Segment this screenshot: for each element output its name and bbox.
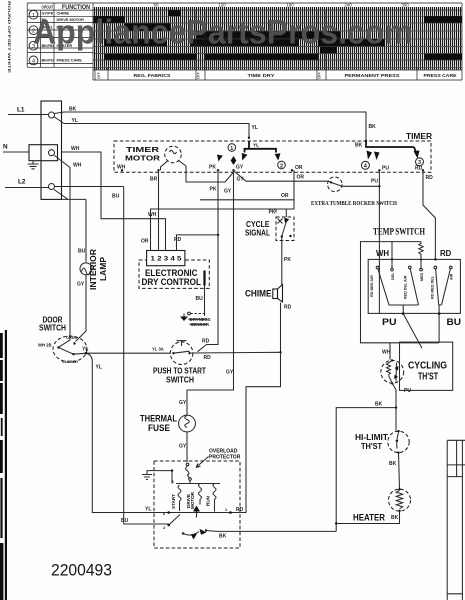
POWER — [3, 101, 381, 524]
cam bar solid segments — [93, 10, 462, 59]
timer terminal PK — [209, 165, 219, 172]
svg-text:GY: GY — [236, 165, 244, 171]
thermal fuse F1 — [140, 414, 195, 450]
svg-text:BK: BK — [369, 124, 377, 130]
wire RD timer contact3 to temp switch — [423, 170, 435, 259]
svg-text:RD: RD — [202, 339, 210, 345]
terminal block — [41, 101, 62, 199]
svg-text:TH'ST: TH'ST — [418, 372, 439, 383]
svg-text:120: 120 — [218, 2, 226, 7]
wire OR timer contact2 to dry control pin1 — [141, 170, 304, 250]
circuit wire codes and function names — [42, 11, 85, 63]
svg-text:2: 2 — [280, 163, 283, 169]
svg-text:180: 180 — [286, 2, 294, 7]
wire PU cycling thermostat out — [392, 383, 411, 430]
svg-text:AIR: AIR — [450, 273, 454, 280]
svg-text:GY: GY — [77, 282, 85, 288]
LEFTSTRIP — [0, 1, 12, 600]
svg-text:INTERIOR: INTERIOR — [89, 249, 98, 290]
door switch S3 — [38, 316, 87, 364]
node L2 — [18, 179, 26, 186]
svg-text:PU: PU — [371, 178, 378, 184]
timer label — [406, 131, 433, 141]
svg-text:GY: GY — [224, 189, 232, 195]
svg-text:TH'ST: TH'ST — [361, 441, 383, 451]
timer contact 3 — [414, 147, 425, 172]
svg-text:DRY CONTROL: DRY CONTROL — [142, 277, 202, 287]
hi-limit thermostat TH2 — [355, 430, 409, 454]
wire WH from neutral to timer motor and dry control — [62, 146, 166, 251]
svg-text:OFF: OFF — [318, 72, 322, 79]
svg-text:OFF: OFF — [197, 72, 201, 79]
wire RD chime to motor — [231, 303, 292, 514]
svg-text:GY: GY — [179, 444, 187, 450]
temp switch selector contacts — [370, 259, 454, 315]
wire BK centrifugal switch to heater circuit — [206, 531, 336, 540]
svg-text:OR: OR — [141, 239, 149, 245]
svg-text:ROUND OFFSET WHITE: ROUND OFFSET WHITE — [7, 1, 12, 74]
temp switch PU output label — [382, 317, 397, 328]
timer chart table frame — [27, 3, 462, 80]
temp switch S5 — [368, 228, 460, 314]
svg-text:N: N — [3, 144, 8, 151]
wire BK L2 to blue motor tap — [55, 186, 124, 188]
wire BK heater return — [335, 511, 400, 525]
extra tumble rocker switch — [311, 177, 397, 207]
svg-text:MED: MED — [420, 272, 424, 281]
cycle signal S2 — [245, 209, 294, 241]
svg-text:BK: BK — [219, 534, 227, 540]
wire GY timer to rocker switch and PU — [235, 172, 381, 188]
svg-text:RD MED DEL: RD MED DEL — [431, 275, 435, 299]
svg-text:RD: RD — [440, 249, 452, 258]
svg-text:CHIME: CHIME — [245, 289, 272, 299]
svg-text:SWITCH: SWITCH — [39, 324, 66, 333]
right edge cut-off table — [447, 440, 465, 600]
wire WH loop into temp switch — [361, 242, 440, 343]
svg-text:PK: PK — [210, 187, 217, 193]
svg-text:BU: BU — [447, 317, 462, 328]
svg-text:TIMER: TIMER — [406, 131, 433, 141]
svg-text:BK: BK — [389, 461, 397, 467]
heater R2 — [353, 488, 411, 523]
svg-text:WH: WH — [148, 212, 157, 218]
svg-text:YL 3A: YL 3A — [152, 347, 164, 352]
MIDDLE — [139, 170, 435, 513]
svg-text:BU: BU — [112, 194, 120, 200]
svg-text:YL: YL — [252, 125, 258, 131]
wire PU temp switch to cycling thermostat — [403, 314, 422, 349]
svg-text:BU: BU — [78, 249, 86, 255]
drive motor M1 — [154, 449, 241, 549]
svg-text:RD MED AIR: RD MED AIR — [370, 275, 374, 297]
svg-text:RD: RD — [426, 175, 434, 181]
interior lamp DS1 — [80, 249, 108, 290]
svg-text:RD: RD — [204, 355, 212, 361]
svg-text:OR: OR — [295, 165, 303, 171]
RIGHTSIDE — [335, 228, 465, 600]
svg-text:PU: PU — [404, 388, 411, 394]
cam bar rows (hatched) — [93, 11, 461, 70]
wire L2 lead — [5, 187, 49, 189]
wire WH to cycling thermostat — [382, 343, 391, 360]
wire RD tap to dry control pin4 — [174, 235, 218, 251]
svg-text:CYCLING: CYCLING — [408, 361, 447, 372]
svg-text:WH: WH — [73, 163, 82, 169]
svg-text:HEATER: HEATER — [353, 513, 385, 524]
svg-text:EXTRA TUMBLE ROCKER SWITCH: EXTRA TUMBLE ROCKER SWITCH — [311, 200, 397, 207]
wire PK cycle signal to chime — [282, 237, 292, 285]
svg-text:BK: BK — [69, 107, 77, 113]
svg-text:DEL: DEL — [391, 272, 395, 280]
timer terminal GY — [232, 165, 244, 172]
svg-text:YL: YL — [72, 118, 78, 124]
svg-text:TEMP SWITCH: TEMP SWITCH — [373, 228, 426, 238]
svg-text:BK: BK — [391, 515, 399, 521]
wire BR timer motor to dry control pin2 — [150, 170, 159, 250]
chart header text — [42, 4, 91, 10]
svg-text:BK/PU: BK/PU — [42, 58, 54, 63]
wire BU from L2 line to motor start — [112, 187, 169, 525]
temp switch BU output label — [447, 317, 462, 328]
svg-text:YL: YL — [145, 507, 151, 513]
motor centrifugal switch — [182, 529, 207, 540]
svg-text:PK: PK — [269, 210, 276, 216]
ground at neutral lug — [28, 161, 39, 169]
resistor R1 in temp switch — [419, 242, 423, 261]
wire WH from neutral to door switch — [55, 156, 82, 348]
timer motor TM — [125, 145, 235, 182]
svg-text:300: 300 — [401, 2, 409, 7]
dryness sensor — [180, 312, 211, 327]
temp switch RD terminal — [434, 249, 451, 261]
svg-text:CLOSED: CLOSED — [62, 360, 78, 364]
svg-text:60: 60 — [154, 2, 159, 7]
svg-text:RUN: RUN — [206, 495, 211, 506]
svg-text:WH: WH — [71, 146, 80, 152]
svg-text:PRESS CARE: PRESS CARE — [424, 73, 457, 78]
part number 2200493 — [51, 562, 112, 580]
wire PU timer contact4 to temp switch — [371, 170, 379, 313]
cycle label row — [95, 10, 417, 80]
svg-text:BK: BK — [375, 402, 383, 408]
svg-text:PK: PK — [209, 165, 216, 171]
svg-text:RED DEL AIR: RED DEL AIR — [404, 275, 408, 299]
svg-text:OFF: OFF — [97, 72, 101, 79]
circled circuit numbers 1-4 — [29, 10, 38, 65]
timer dashed enclosure — [114, 141, 431, 172]
svg-text:4: 4 — [32, 59, 35, 65]
svg-text:6: 6 — [163, 512, 165, 516]
svg-text:YL: YL — [253, 143, 259, 148]
svg-text:1: 1 — [230, 146, 233, 152]
node N — [3, 144, 8, 151]
terminal N — [49, 150, 55, 156]
svg-text:BU: BU — [196, 296, 204, 302]
svg-text:RD: RD — [174, 237, 182, 243]
CHART — [27, 2, 462, 80]
temp switch WH terminal — [376, 242, 393, 261]
timer terminal BR — [157, 169, 159, 171]
svg-text:CIRCUIT: CIRCUIT — [42, 4, 54, 9]
terminal L1 — [49, 112, 55, 118]
svg-text:WH: WH — [382, 350, 391, 356]
svg-text:THERMAL: THERMAL — [140, 414, 177, 424]
WATERMARK — [33, 14, 413, 52]
timer contact 2 — [275, 153, 303, 199]
wire YL door switch to push-to-start and motor — [74, 347, 171, 513]
wire from L2 terminal to lamp — [54, 190, 86, 200]
wire GY thermal fuse to motor — [186, 432, 188, 462]
wire BK bypass from motor — [336, 402, 397, 532]
push to start switch S4 — [152, 341, 207, 385]
wire BK hi-limit to heater — [389, 453, 400, 489]
wire PK/RD timer to push-to-start — [198, 170, 220, 351]
svg-text:2200493: 2200493 — [51, 562, 112, 580]
svg-text:WH 2B: WH 2B — [38, 343, 52, 348]
wire BU dry control to dryness sensor — [196, 286, 205, 314]
timer contact 4 — [361, 141, 414, 172]
svg-text:YL: YL — [96, 365, 102, 371]
BOTTOM — [51, 341, 336, 580]
svg-text:PK: PK — [284, 257, 291, 263]
svg-text:AppliancePartsPros.com: AppliancePartsPros.com — [33, 14, 413, 52]
timer contact 1 — [217, 141, 276, 166]
svg-text:REG. FABRICS: REG. FABRICS — [134, 73, 171, 78]
wire L1 lead — [8, 114, 49, 116]
node L1 — [17, 107, 25, 114]
svg-text:GY: GY — [237, 177, 245, 183]
svg-text:START: START — [171, 494, 176, 509]
wire BK from L1 to timer contact feed — [55, 107, 377, 149]
svg-text:GY: GY — [179, 400, 187, 406]
svg-text:1: 1 — [225, 508, 227, 512]
wire BU temp switch down — [438, 314, 440, 343]
wire N lead — [3, 151, 29, 153]
svg-text:TIME DRY: TIME DRY — [248, 73, 275, 78]
svg-text:OR: OR — [297, 175, 305, 181]
svg-text:SIGNAL: SIGNAL — [245, 229, 270, 238]
svg-text:FUSE: FUSE — [148, 423, 170, 433]
svg-text:WH: WH — [117, 165, 126, 171]
svg-text:LAMP: LAMP — [99, 257, 108, 281]
wire GY timer contact1 to thermal fuse — [179, 170, 244, 415]
terminal L2 — [49, 184, 55, 190]
electronic dry control U1 — [139, 251, 209, 289]
svg-text:PU: PU — [382, 317, 397, 328]
motor ground — [142, 471, 154, 480]
svg-text:YL: YL — [82, 347, 88, 353]
svg-text:WH: WH — [376, 249, 389, 258]
svg-text:PROTECTOR: PROTECTOR — [209, 455, 241, 461]
svg-text:5: 5 — [172, 480, 174, 484]
svg-text:MOTOR: MOTOR — [190, 491, 195, 509]
svg-text:SWITCH: SWITCH — [166, 375, 194, 385]
cycling thermostat label box — [400, 342, 453, 390]
chime SP1 — [245, 285, 283, 303]
svg-text:RD: RD — [284, 305, 292, 311]
svg-text:OPEN: OPEN — [66, 336, 77, 340]
svg-text:2: 2 — [163, 526, 165, 530]
svg-text:L2: L2 — [18, 179, 26, 186]
svg-text:BU: BU — [121, 518, 129, 524]
svg-text:PERMANENT PRESS: PERMANENT PRESS — [345, 73, 400, 78]
svg-text:BR: BR — [150, 177, 158, 183]
svg-text:RD: RD — [415, 166, 423, 172]
TIMERBOX — [114, 131, 433, 207]
svg-text:MOTOR: MOTOR — [125, 154, 161, 163]
svg-text:L1: L1 — [17, 107, 25, 114]
svg-text:OR: OR — [281, 193, 289, 199]
cut-off table edge at left border — [0, 330, 7, 600]
wire BU to interior lamp — [78, 199, 86, 261]
svg-text:GY: GY — [226, 370, 234, 376]
svg-text:240: 240 — [344, 2, 352, 7]
wire L2 feed to cycle signal — [200, 199, 294, 201]
svg-text:PU: PU — [382, 166, 389, 172]
LEFTMID — [38, 199, 171, 512]
svg-text:4: 4 — [364, 164, 367, 170]
wire RD push-to-start to chime node — [191, 352, 281, 361]
timer terminal WH — [117, 165, 126, 172]
wire YL from L1 to timer feed — [55, 117, 258, 139]
cycling thermostat TH1 — [381, 359, 404, 384]
svg-text:BK: BK — [355, 143, 363, 149]
svg-text:1 2 3 4 5: 1 2 3 4 5 — [151, 256, 183, 263]
wire GY lamp to door switch — [76, 275, 87, 342]
degree ruler — [154, 2, 410, 7]
neutral lug — [29, 145, 58, 161]
svg-text:PRESS CARE: PRESS CARE — [57, 58, 83, 63]
